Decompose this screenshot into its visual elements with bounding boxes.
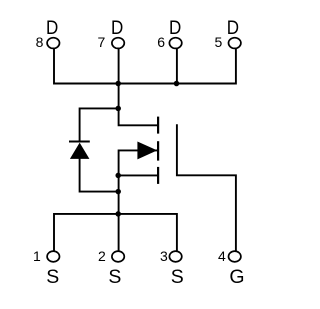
- pin 7 terminal circle: [112, 38, 124, 49]
- svg-text:4: 4: [218, 248, 226, 264]
- diode D1 cathode bar: [69, 141, 90, 143]
- svg-text:6: 6: [157, 34, 165, 50]
- svg-text:7: 7: [98, 34, 106, 50]
- wire pin6 lead to drain rail: [176, 49, 178, 84]
- svg-text:8: 8: [36, 34, 44, 50]
- svg-text:S: S: [108, 266, 121, 288]
- svg-text:2: 2: [98, 248, 106, 264]
- pin 5 terminal circle: [229, 38, 241, 49]
- svg-text:D: D: [227, 17, 239, 39]
- junction drain node / diode cathode branch: [115, 106, 121, 112]
- wire MOSFET Q1 body line down to source node: [119, 150, 158, 175]
- svg-text:5: 5: [215, 34, 223, 50]
- MOSFET Q1 body arrow: [137, 142, 157, 160]
- pin 6 terminal circle: [169, 38, 181, 49]
- junction diode anode branch / center vertical: [115, 189, 121, 195]
- pin 4 terminal circle: [229, 251, 241, 262]
- svg-text:G: G: [229, 266, 244, 288]
- MOSFET Q1 gate plate and gate lead to pin4 (net G): [177, 124, 236, 251]
- MOSFET Q1 channel bottom segment: [157, 167, 159, 184]
- svg-text:1: 1: [33, 248, 41, 264]
- svg-text:D: D: [46, 17, 58, 39]
- junction drain rail / pin7: [115, 81, 121, 87]
- svg-text:3: 3: [160, 248, 168, 264]
- pin 8 terminal circle: [47, 38, 59, 49]
- wire diode D1 anode to center vertical: [80, 159, 119, 192]
- svg-text:D: D: [169, 17, 181, 39]
- pin 3 terminal circle: [169, 251, 181, 262]
- svg-text:S: S: [171, 266, 184, 288]
- wire MOSFET Q1 source line: [119, 174, 158, 176]
- svg-text:D: D: [111, 17, 123, 39]
- wire drain node to MOSFET Q1 drain: [119, 108, 158, 125]
- wire pin7 lead through rail down to diode/drain node: [118, 49, 120, 109]
- wire source node down to pin2: [118, 175, 120, 251]
- MOSFET Q1 channel middle segment: [157, 141, 159, 160]
- svg-text:S: S: [46, 266, 59, 288]
- diode D1 anode triangle: [70, 143, 90, 159]
- junction source rail / pin2: [115, 211, 121, 217]
- wire pin1 lead, source rail (net S), pin3 lead: [54, 214, 177, 251]
- MOSFET Q1 channel top segment: [157, 117, 159, 134]
- pin 1 terminal circle: [47, 251, 59, 262]
- wire pin8 lead, drain rail (net D), pin5 lead: [54, 49, 236, 84]
- junction source line / center vertical: [115, 173, 121, 179]
- wire drain node to diode D1 cathode: [80, 108, 119, 140]
- pin 2 terminal circle: [112, 251, 124, 262]
- junction drain rail / pin6: [174, 81, 180, 87]
